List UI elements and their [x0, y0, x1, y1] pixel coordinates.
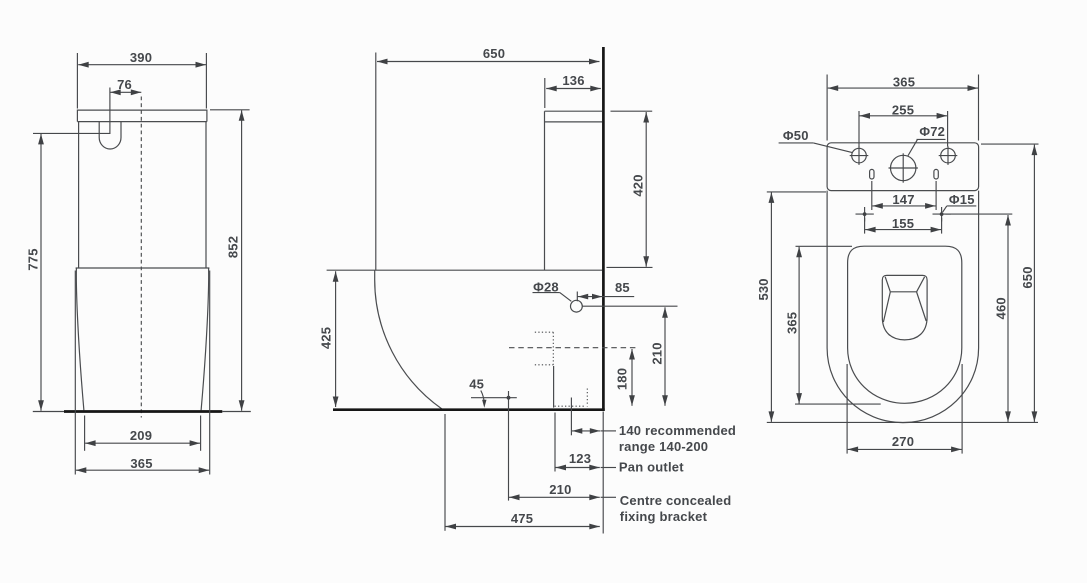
- svg-text:range 140-200: range 140-200: [619, 439, 708, 454]
- svg-text:Φ72: Φ72: [919, 124, 945, 139]
- dim 123 extension: [554, 413, 556, 472]
- dim 390: [78, 64, 206, 66]
- dim 147: [872, 205, 935, 207]
- leader to 140 label: [601, 430, 616, 432]
- fixing bracket vertical line below floor: [508, 405, 510, 501]
- svg-text:45: 45: [469, 377, 484, 392]
- svg-text:420: 420: [631, 174, 646, 196]
- svg-text:365: 365: [130, 456, 152, 471]
- supply pipe axis dashed: [509, 347, 639, 349]
- cistern front edge (side): [544, 111, 546, 270]
- flush opening outer: [882, 275, 927, 340]
- cistern body right edge: [205, 122, 207, 268]
- seat ring plan: [848, 246, 962, 403]
- dim 460: [1007, 215, 1009, 422]
- dim 650: [377, 61, 600, 63]
- slot hole right: [934, 169, 938, 179]
- hole right small: [941, 148, 956, 163]
- hidden outlet dotted edge: [586, 389, 588, 407]
- hidden inlet box dotted top: [535, 331, 554, 333]
- svg-text:Φ50: Φ50: [783, 128, 809, 143]
- dim 155: [865, 229, 941, 231]
- floor line thin extension left: [33, 411, 64, 413]
- flush opening diagonal bottom-left: [883, 292, 890, 322]
- bowl front profile curve: [375, 270, 443, 409]
- pan outlet centerline (solid): [553, 366, 555, 408]
- dim 775: [40, 134, 42, 411]
- fixing point cross right: [933, 213, 951, 215]
- dim 650 plan: [1033, 145, 1035, 422]
- dim 209 extension lines: [84, 416, 86, 451]
- svg-text:365: 365: [893, 75, 915, 90]
- dim 365 plan top: [828, 87, 978, 89]
- fixing bracket horizontal line: [471, 397, 517, 399]
- lid bottom line: [77, 121, 207, 123]
- bowl outer outline plan: [827, 191, 979, 423]
- leader to pan outlet label: [601, 467, 616, 469]
- svg-text:530: 530: [756, 278, 771, 300]
- cistern plan rectangle: [827, 143, 979, 191]
- dim 420 extension bottom: [607, 266, 653, 268]
- inlet circle phi28: [571, 300, 583, 312]
- flush opening inner back edge: [890, 291, 916, 293]
- wall extension below floor: [602, 412, 604, 534]
- hole phi72: [891, 155, 916, 180]
- hidden outlet flange dotted: [555, 405, 587, 407]
- svg-text:Pan outlet: Pan outlet: [619, 459, 684, 474]
- centerline: [140, 97, 142, 418]
- dim 209: [85, 442, 200, 444]
- dim 255: [860, 115, 948, 117]
- dim 530: [770, 192, 772, 422]
- hole phi50: [852, 148, 867, 163]
- slot hole left: [870, 169, 874, 179]
- svg-text:255: 255: [892, 102, 914, 117]
- dim 852: [241, 110, 243, 411]
- svg-text:475: 475: [511, 511, 533, 526]
- svg-text:270: 270: [892, 434, 914, 449]
- floor line (side) thick: [333, 408, 605, 411]
- wall line thick: [602, 47, 605, 411]
- svg-text:85: 85: [615, 280, 630, 295]
- dim 270: [848, 448, 962, 450]
- dim 140 arrows: [572, 430, 600, 432]
- cistern body left edge: [78, 122, 80, 268]
- svg-text:155: 155: [892, 216, 914, 231]
- flush opening diagonal top-left: [885, 277, 890, 292]
- dim 475: [446, 526, 600, 528]
- flush button: [99, 122, 121, 149]
- dim 425: [335, 271, 337, 407]
- dim 650 extension top: [981, 143, 1039, 145]
- svg-text:Centre concealed: Centre concealed: [620, 493, 732, 508]
- dim 140 extension: [570, 398, 572, 436]
- svg-text:123: 123: [569, 451, 591, 466]
- floor line thick: [64, 410, 222, 413]
- svg-text:650: 650: [483, 46, 505, 61]
- svg-text:209: 209: [130, 428, 152, 443]
- dim 136: [546, 88, 601, 90]
- flush opening diagonal top-right: [917, 277, 925, 292]
- dim 365: [76, 469, 209, 471]
- svg-text:460: 460: [993, 297, 1008, 319]
- svg-text:147: 147: [892, 192, 914, 207]
- fixing bracket cross marker: [507, 396, 511, 400]
- svg-text:Φ15: Φ15: [949, 192, 975, 207]
- dim 852 extension top: [210, 109, 250, 111]
- dim 420 extension top: [611, 110, 653, 112]
- cistern lid (front): [77, 110, 207, 122]
- hidden inlet box dotted bottom: [535, 364, 554, 366]
- svg-text:fixing bracket: fixing bracket: [620, 509, 708, 524]
- dim 76: [110, 91, 141, 93]
- dim 775 extension top: [33, 132, 110, 134]
- dim 365 plan inner: [798, 247, 800, 404]
- dim 530 extension top: [767, 191, 826, 193]
- dim 210 below floor: [509, 496, 600, 498]
- svg-text:852: 852: [226, 236, 241, 258]
- bowl top line (side): [327, 269, 602, 271]
- pedestal taper left: [76, 268, 84, 410]
- dim 420: [645, 112, 647, 267]
- svg-text:140 recommended: 140 recommended: [619, 423, 736, 438]
- floor line thin extension right: [222, 411, 251, 413]
- leader to centre bracket label: [601, 496, 616, 498]
- svg-text:136: 136: [562, 73, 584, 88]
- dim 365 plan inner extension bottom: [795, 403, 881, 405]
- dim 85: [576, 292, 578, 302]
- svg-text:775: 775: [26, 248, 41, 270]
- svg-text:76: 76: [117, 77, 132, 92]
- svg-text:390: 390: [130, 50, 152, 65]
- dim 180: [631, 349, 633, 406]
- dim 365 plan inner extension top: [796, 245, 853, 247]
- bottom tangent extension line: [767, 421, 1038, 423]
- svg-text:210: 210: [549, 482, 571, 497]
- svg-text:650: 650: [1020, 266, 1035, 288]
- bowl rim joint line: [76, 267, 210, 269]
- svg-text:425: 425: [318, 327, 333, 349]
- svg-text:210: 210: [650, 342, 665, 364]
- svg-text:180: 180: [614, 368, 629, 390]
- pedestal taper right: [201, 268, 209, 410]
- dim 210 (side height): [664, 307, 666, 406]
- flush opening diagonal bottom-right: [917, 292, 927, 321]
- dim 123: [556, 467, 600, 469]
- dim 475 extension: [444, 414, 446, 531]
- dim 460 extension top: [946, 213, 1013, 215]
- dim 270 extension lines: [846, 364, 848, 454]
- fixing point cross left: [856, 213, 874, 215]
- cistern lid bottom (side): [545, 121, 603, 123]
- inlet center extension line: [582, 305, 677, 307]
- cistern top (side): [545, 110, 603, 112]
- dim 365 extension lines: [74, 271, 76, 475]
- hidden inlet box dotted right: [552, 332, 554, 365]
- svg-text:365: 365: [785, 312, 800, 334]
